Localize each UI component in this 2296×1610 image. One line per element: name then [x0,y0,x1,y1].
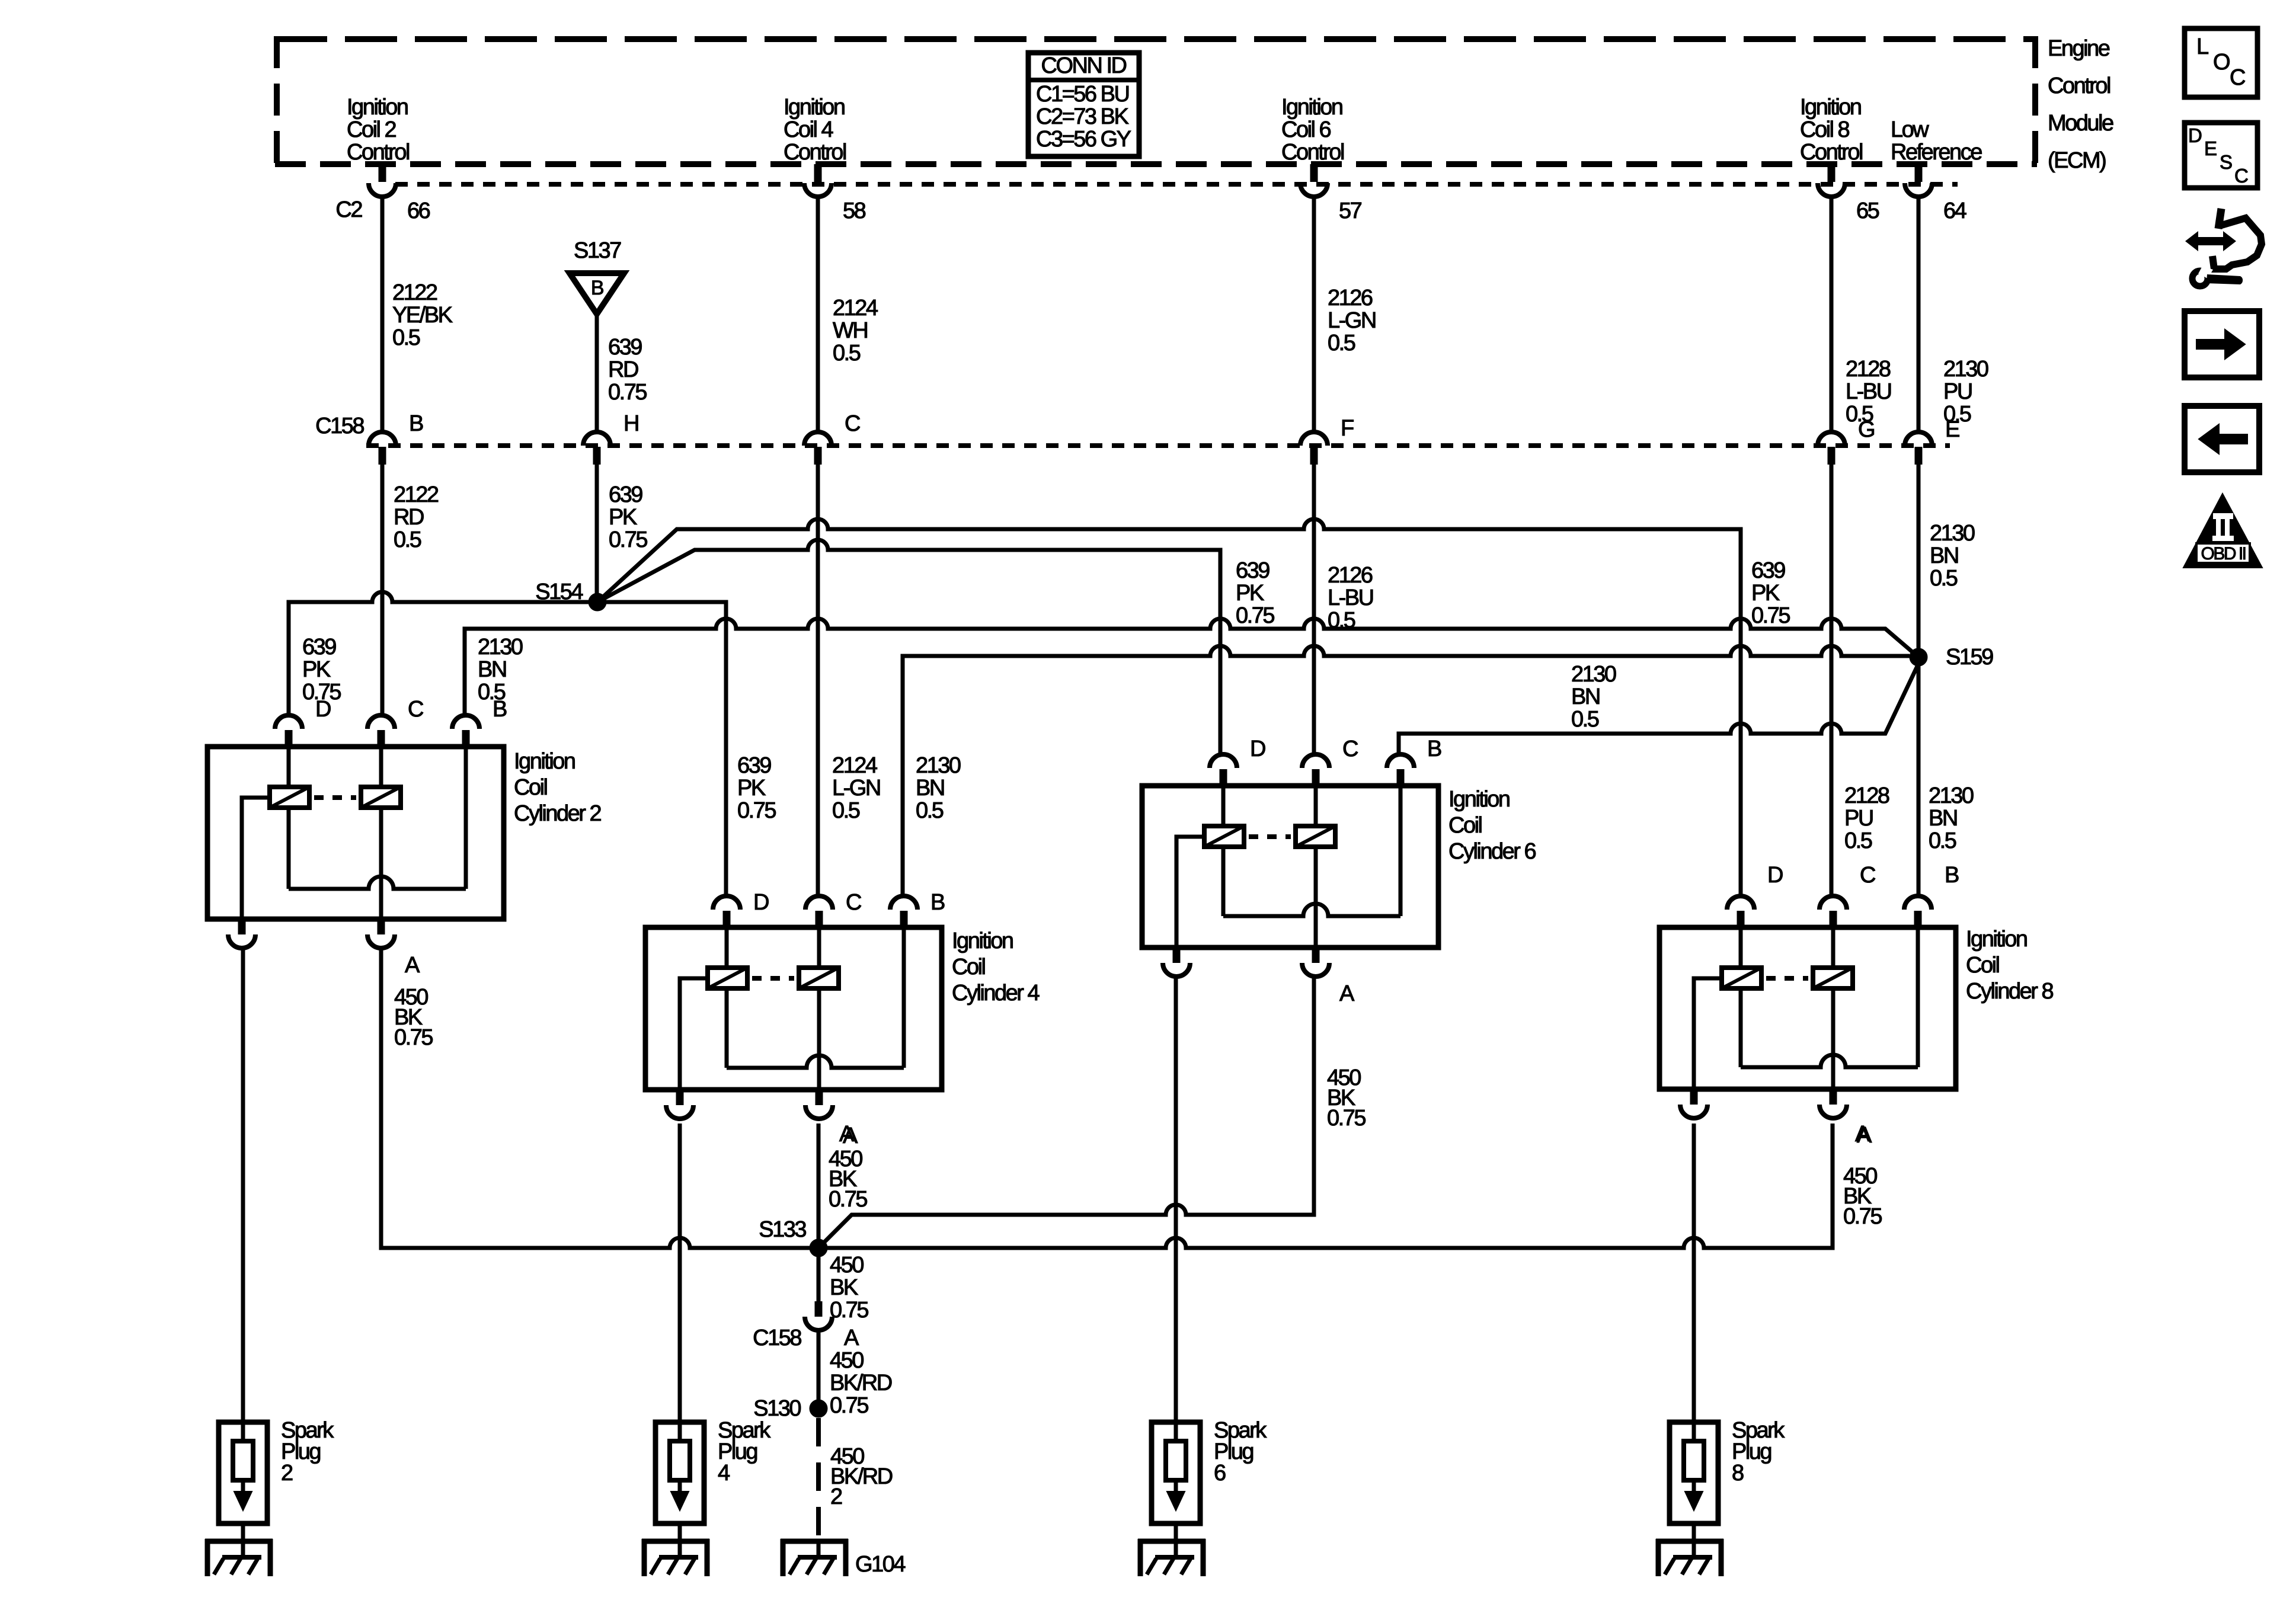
label: Ignition Coil 4 Control [784,95,846,165]
coil 6 pin A connector [1302,948,1355,1006]
svg-text:A: A [405,953,420,978]
svg-text:A: A [1339,981,1355,1006]
svg-text:WH: WH [833,318,867,343]
svg-text:Coil 2: Coil 2 [347,117,396,142]
svg-text:0.5: 0.5 [832,798,860,823]
ignition coil cylinder 2 box [207,747,504,919]
splice S154 [535,580,606,611]
svg-text:Ignition: Ignition [514,749,575,774]
svg-text:64: 64 [1943,199,1967,223]
wire label 2124 L-GN 0.5 [832,753,880,823]
coil 8 secondary winding (right) [1813,968,1853,988]
svg-text:L: L [2196,34,2208,59]
svg-text:G: G [1858,417,1874,442]
label: Ignition Coil 2 Control [347,95,409,165]
svg-text:57: 57 [1339,199,1362,223]
icon: LOC box [2185,28,2257,97]
svg-text:2124: 2124 [833,296,878,321]
svg-text:0.5: 0.5 [1929,828,1956,853]
svg-text:H: H [623,411,638,436]
svg-text:0.5: 0.5 [1930,566,1958,591]
svg-text:D: D [753,890,769,915]
coil 4 internal wires [680,927,904,1090]
svg-text:S159: S159 [1946,645,1993,670]
wire 2130 PU 0.5 (low reference) [1917,197,1921,432]
svg-text:0.5: 0.5 [1328,331,1355,356]
svg-text:Ignition: Ignition [952,929,1013,953]
svg-text:BK/RD: BK/RD [830,1371,892,1395]
coil 4 pin A connector [805,1090,858,1148]
svg-text:RD: RD [394,505,424,530]
wire 450 BK S133 to coil 6 A [818,978,1314,1248]
coil 8 pin A connector [1819,1089,1872,1148]
coil 2 internal wires [242,747,466,919]
wire label 2122 YE/BK 0.5 [392,280,453,350]
ECM pin 57 connector [1300,164,1362,223]
svg-text:PK: PK [302,657,331,682]
wire 2128 PU 0.5 (C158 G to coil 8 C) [1830,465,1834,894]
splice S133 [759,1217,827,1257]
coil 8 primary winding (left) [1722,968,1761,988]
svg-text:C: C [1860,863,1875,888]
ground G104 [781,1539,848,1576]
svg-text:65: 65 [1856,199,1879,223]
wire label 450 BK 0.75 (coil 8) [1843,1122,1882,1229]
coil 4 winding coupling (dashed) [752,976,794,981]
svg-text:0.75: 0.75 [1843,1204,1882,1229]
wire 450 BK S133 to coil 8 A [827,1124,1833,1248]
coil 2 pin B connector [452,697,507,748]
svg-text:Ignition: Ignition [1800,95,1861,120]
svg-text:Ignition: Ignition [1966,927,2027,952]
svg-text:6: 6 [1214,1461,1226,1486]
splice S130 [753,1396,827,1421]
label: Spark Plug 6 [1214,1418,1267,1486]
svg-text:C158: C158 [315,414,364,438]
wire label A 450 BK 0.75 (coil 4) [829,1122,867,1212]
coil 8 secondary output to spark plug [1680,1089,1707,1118]
label: Ignition Coil Cylinder 4 [952,929,1040,1006]
svg-text:C: C [846,890,861,915]
wire coil secondary to spark plug [241,948,245,1422]
wire 450 BK S133 down to C158 A [817,1257,821,1301]
wire 639 PK to coil 8 pin D (top bus) [597,519,1741,894]
svg-text:Ignition: Ignition [1281,95,1342,120]
ground (spark plug 6) [1138,1539,1205,1576]
svg-text:C158: C158 [753,1326,801,1350]
coil 4 primary winding (left) [708,968,747,988]
svg-text:0.75: 0.75 [737,798,776,823]
svg-text:C1=56 BU: C1=56 BU [1036,82,1128,107]
wire label 639 PK 0.75 (coil 6 D) [1236,558,1274,628]
label: Ignition Coil 6 Control [1281,95,1344,165]
wire label 639 RD 0.75 [608,335,647,405]
coil 8 winding coupling (dashed) [1766,976,1808,981]
svg-text:450: 450 [830,1253,864,1278]
svg-text:C: C [1342,737,1358,761]
svg-text:0.5: 0.5 [1571,707,1599,732]
wire label 2128 L-BU 0.5 [1846,357,1891,427]
wire label 2130 PU 0.5 [1943,357,1988,427]
coil 2 winding coupling (dashed) [314,795,356,800]
svg-text:B: B [1945,863,1959,888]
spark plug 2 [219,1422,267,1557]
wire 2130 BN bus to coil 2 pin B [465,619,1918,716]
wire label 639 PK 0.75 [609,482,647,552]
svg-text:CONN ID: CONN ID [1041,53,1127,78]
svg-text:F: F [1341,416,1354,441]
wire label 2126 L-GN 0.5 [1328,286,1376,356]
wire label 2128 PU 0.5 [1844,783,1889,853]
svg-text:2: 2 [830,1484,842,1509]
svg-text:Cylinder 6: Cylinder 6 [1448,839,1536,864]
wire label 639 PK 0.75 (coil 2 D) [302,635,341,705]
svg-text:Reference: Reference [1891,140,1982,165]
coil 6 pin B connector [1387,737,1441,787]
svg-text:2122: 2122 [394,482,439,507]
svg-text:BN: BN [478,657,506,682]
svg-text:C: C [408,697,423,722]
icon: DESC box [2185,123,2257,188]
wire 450 BK coil 4 A to S133 [817,1124,821,1248]
connector C158 pin F [1300,416,1354,465]
svg-text:L-BU: L-BU [1328,585,1373,610]
ECM pin 66 connector [369,164,430,223]
svg-text:RD: RD [608,357,638,382]
coil 2 pin D connector [275,697,331,748]
wire label 2130 BN 0.5 (coil 2 B) [478,635,523,705]
svg-text:Low: Low [1891,117,1929,142]
wire label 450 BK 0.75 (below S133) [830,1253,868,1323]
svg-text:A: A [844,1326,859,1350]
wire label 450 BK/RD 2 [830,1444,893,1509]
svg-text:2124: 2124 [832,753,878,778]
svg-text:0.5: 0.5 [1844,828,1872,853]
svg-text:0.75: 0.75 [609,527,647,552]
svg-text:639: 639 [302,635,336,660]
wire 450 BK/RD 2 S130 to G104 (dashed) [816,1418,821,1560]
svg-text:Coil: Coil [952,955,985,980]
wire 2122 RD 0.5 [380,465,385,716]
coil 6 primary winding (left) [1204,826,1244,847]
wire label A 450 BK 0.75 (coil 2) [394,985,433,1050]
wire label 450 BK 0.75 (coil 6) [1327,1065,1366,1131]
wire label 2130 BN 0.5 (coil 8 B) [1929,783,1974,853]
svg-text:PU: PU [1844,806,1873,831]
CONN ID table [1028,53,1139,156]
wire label 450 BK/RD 0.75 [830,1348,892,1418]
svg-text:0.75: 0.75 [608,380,647,405]
label: Engine Control Module (ECM) [2048,36,2113,173]
icon: arrow right box [2185,311,2259,377]
wire 2124 WH 0.5 (coil 4 control) [816,197,820,432]
svg-text:639: 639 [1751,558,1785,583]
svg-text:2126: 2126 [1328,286,1373,311]
svg-text:B: B [930,890,945,915]
coil 4 secondary output to spark plug [666,1090,693,1119]
svg-text:0.75: 0.75 [1327,1106,1366,1131]
icon: OBD II triangle [2183,494,2262,568]
svg-text:0.75: 0.75 [830,1393,868,1418]
svg-text:Module: Module [2048,111,2113,136]
coil 8 pin D connector [1727,863,1783,929]
ECM pin 65 connector [1818,164,1879,223]
svg-text:2130: 2130 [1929,783,1974,808]
svg-text:S133: S133 [759,1217,806,1242]
svg-text:PK: PK [1236,581,1264,606]
wire label 2126 L-BU 0.5 [1328,563,1373,633]
svg-text:Ignition: Ignition [1448,787,1510,812]
svg-text:450: 450 [830,1348,864,1373]
wire 2126 L-GN 0.5 (coil 6 control) [1312,197,1316,432]
svg-text:L-BU: L-BU [1846,379,1891,404]
svg-text:C2=73 BK: C2=73 BK [1036,104,1128,129]
wire label 2130 BN 0.5 (coil 6 B) [1571,662,1616,732]
label: Ignition Coil Cylinder 6 [1448,787,1536,864]
svg-text:2130: 2130 [1930,521,1975,546]
svg-text:639: 639 [608,335,642,360]
ignition coil cylinder 4 box [645,927,942,1090]
wire label 639 PK 0.75 (coil 8 D) [1751,558,1790,628]
icon: arrow left box [2185,406,2259,472]
coil 2 secondary winding (right) [361,787,401,808]
svg-text:8: 8 [1732,1461,1744,1486]
connector C158 pin A [753,1301,859,1350]
ignition coil cylinder 8 box [1659,927,1956,1089]
svg-text:C2: C2 [335,197,362,222]
wire 639 PK 0.75 (C158 H to S154) [595,465,599,602]
svg-text:D: D [1250,737,1265,761]
svg-text:4: 4 [718,1461,730,1486]
svg-text:S: S [2220,151,2232,173]
connector C158 pin E [1905,417,1959,465]
svg-text:2: 2 [281,1461,293,1486]
svg-text:L-GN: L-GN [832,776,880,801]
label: Ignition Coil 8 Control [1800,95,1862,165]
svg-text:E: E [1945,417,1959,442]
svg-text:2122: 2122 [392,280,437,305]
svg-text:2126: 2126 [1328,563,1373,588]
svg-text:2130: 2130 [916,753,961,778]
svg-text:Coil: Coil [514,775,547,800]
coil 6 winding coupling (dashed) [1249,834,1291,839]
svg-text:E: E [2204,137,2217,159]
svg-text:C: C [845,411,860,436]
svg-text:Cylinder 2: Cylinder 2 [514,801,601,826]
svg-text:2130: 2130 [1571,662,1616,687]
label: Low Reference [1891,117,1982,165]
wire label 2124 WH 0.5 [833,296,878,366]
label: Spark Plug 4 [718,1418,771,1486]
wire 639 PK to coil 2 pin D [289,592,597,716]
connector C158 pin G [1818,417,1874,465]
wire 2128 L-BU 0.5 (coil 8 control) [1830,197,1834,432]
svg-text:Ignition: Ignition [784,95,845,120]
coil 6 pin D connector [1210,737,1265,787]
svg-text:B: B [1427,737,1441,761]
label G104 [855,1552,906,1577]
svg-text:639: 639 [1236,558,1269,583]
wire 2130 BN to coil 6 pin B [1399,664,1918,754]
coil 8 pin B connector [1904,863,1959,929]
wire 2130 BN 0.5 (C158 E to S159 to coil 8 B) [1917,465,1921,894]
svg-text:C: C [2230,65,2245,90]
coil 2 primary winding (left) [270,787,309,808]
svg-text:2130: 2130 [1943,357,1988,382]
wire label 2130 BN 0.5 (coil 4 B) [916,753,961,823]
wire 2130 BN to coil 4 pin B [903,646,1910,894]
coil 4 pin C connector [805,890,861,929]
svg-text:0.75: 0.75 [1751,603,1790,628]
coil 4 secondary winding (right) [799,968,839,988]
svg-text:PK: PK [1751,581,1780,606]
svg-text:BK: BK [830,1275,858,1300]
ECM module box (dashed outline) [275,36,2037,167]
connector C2 interface line [395,182,1958,187]
wire 2126 L-BU 0.5 (C158 F to coil 6 C) [1312,465,1316,754]
wire 639 PK to coil 4 pin D [597,602,726,894]
svg-text:PU: PU [1943,379,1972,404]
svg-text:Control: Control [1800,140,1862,165]
svg-text:BN: BN [916,776,944,801]
svg-text:Coil: Coil [1448,813,1482,838]
svg-text:0.75: 0.75 [1236,603,1274,628]
spark plug 8 [1670,1422,1718,1557]
svg-text:639: 639 [737,753,771,778]
coil 4 pin B connector [890,890,945,929]
coil 6 secondary output to spark plug [1163,948,1190,977]
svg-text:58: 58 [843,199,866,223]
coil 2 pin A connector [367,919,420,978]
svg-text:0.5: 0.5 [833,341,861,366]
splice S159 [1910,645,1993,670]
svg-text:L-GN: L-GN [1328,308,1376,333]
svg-text:YE/BK: YE/BK [392,303,453,328]
svg-text:2128: 2128 [1844,783,1889,808]
svg-text:C: C [2234,165,2248,187]
svg-text:66: 66 [407,199,430,223]
svg-text:639: 639 [609,482,642,507]
svg-text:O: O [2213,50,2230,75]
coil 8 internal wires [1694,927,1918,1089]
ECM pin 58 connector [804,164,866,223]
coil 6 internal wires [1176,786,1400,948]
svg-text:0.5: 0.5 [394,527,421,552]
ground (spark plug 8) [1656,1539,1723,1576]
coil 4 pin D connector [713,890,769,929]
svg-text:Control: Control [1281,140,1344,165]
connector C158 pin C [804,411,860,465]
wire 639 PK to coil 6 pin D [597,540,1220,754]
wire 2122 YE/BK 0.5 (coil 2 control) [380,197,385,432]
svg-text:A: A [839,1122,855,1147]
svg-text:Cylinder 8: Cylinder 8 [1966,979,2053,1004]
spark plug 6 [1152,1422,1200,1557]
svg-text:G104: G104 [855,1552,906,1577]
svg-text:S137: S137 [574,238,621,263]
coil 2 pin C connector [367,697,423,748]
svg-text:BN: BN [1571,684,1600,709]
svg-text:2130: 2130 [478,635,523,660]
svg-text:Coil: Coil [1966,953,1999,978]
svg-text:BN: BN [1929,806,1957,831]
svg-text:Cylinder 4: Cylinder 4 [952,981,1040,1006]
icon: service wrench / connector [2185,209,2262,286]
svg-text:B: B [409,411,423,436]
wire coil secondary to spark plug [1174,978,1178,1422]
svg-text:D: D [1767,863,1783,888]
svg-text:Coil 4: Coil 4 [784,117,834,142]
svg-text:0.75: 0.75 [829,1187,867,1212]
wire coil secondary to spark plug [678,1124,682,1422]
wire 2124 L-GN 0.5 (C158 C to coil 4 C) [816,465,820,894]
svg-text:2128: 2128 [1846,357,1891,382]
coil 8 pin C connector [1819,863,1875,929]
wire label 2122 RD 0.5 [394,482,439,552]
label: Ignition Coil Cylinder 8 [1966,927,2053,1004]
svg-text:Control: Control [2048,73,2110,98]
connector C158 pin H [583,411,638,465]
svg-text:Engine: Engine [2048,36,2110,61]
label: Spark Plug 8 [1732,1418,1785,1486]
svg-text:S130: S130 [753,1396,801,1421]
svg-text:B: B [591,277,603,299]
wire 639 RD 0.75 [595,314,599,432]
coil 6 pin C connector [1302,737,1358,787]
svg-text:B: B [493,697,507,722]
coil 6 secondary winding (right) [1296,826,1335,847]
ECM pin 64 connector [1905,164,1967,223]
wire 450 BK/RD C158 A to S130 [817,1331,821,1401]
label: Ignition Coil Cylinder 2 [514,749,601,826]
connector C158 interface line [366,443,1950,448]
svg-text:D: D [315,697,331,722]
svg-text:0.75: 0.75 [830,1298,868,1323]
svg-text:Ignition: Ignition [347,95,408,120]
svg-text:(ECM): (ECM) [2048,148,2106,173]
svg-text:Control: Control [784,140,846,165]
ground (spark plug 4) [642,1539,709,1576]
svg-text:Control: Control [347,140,409,165]
ignition coil cylinder 6 box [1142,786,1438,948]
svg-text:0.5: 0.5 [916,798,944,823]
svg-text:Coil 6: Coil 6 [1281,117,1331,142]
wire coil secondary to spark plug [1692,1124,1696,1422]
svg-text:PK: PK [609,505,637,530]
svg-text:0.75: 0.75 [394,1025,433,1050]
splice S137 [570,238,624,314]
svg-text:0.5: 0.5 [392,325,420,350]
svg-text:PK: PK [737,776,766,801]
svg-text:BN: BN [1930,543,1958,568]
wire 450 BK coil 2 A to S133 [381,948,810,1248]
svg-text:A: A [1855,1122,1870,1147]
label: Spark Plug 2 [281,1418,334,1486]
wire label 2130 BN 0.5 (above S159) [1930,521,1975,591]
svg-text:OBD II: OBD II [2201,544,2245,564]
svg-text:C3=56 GY: C3=56 GY [1036,127,1131,152]
connector C158 pin B [369,411,423,465]
coil 2 secondary output to spark plug [228,919,255,948]
ground (spark plug 2) [205,1539,273,1576]
wire label 639 PK 0.75 (coil 4 D) [737,753,776,823]
svg-text:D: D [2188,124,2202,146]
svg-text:Coil 8: Coil 8 [1800,117,1850,142]
spark plug 4 [655,1422,704,1557]
